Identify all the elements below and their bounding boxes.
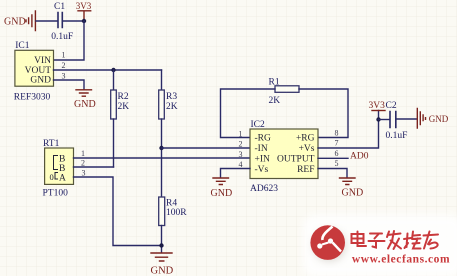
resistor R4	[159, 197, 165, 226]
svg-text:0: 0	[50, 172, 54, 182]
svg-text:0.1uF: 0.1uF	[51, 32, 73, 42]
svg-text:R3: R3	[166, 92, 177, 102]
wire C1 to junction	[63, 20, 85, 22]
wire C2 to ground right	[396, 118, 417, 120]
ground right of C2 (rotated bars)	[417, 109, 425, 129]
wire R2 bottom lead to RT1 pin2 wire	[113, 119, 115, 167]
svg-text:+Vs: +Vs	[299, 144, 315, 154]
svg-text:GND: GND	[342, 188, 364, 199]
svg-text:2K: 2K	[166, 102, 178, 112]
svg-text:REF: REF	[297, 165, 314, 175]
svg-text:GND: GND	[429, 114, 449, 124]
svg-text:1: 1	[239, 129, 243, 138]
node junction +Vs/C2	[376, 117, 380, 121]
node junction C1/3V3/VIN	[82, 19, 86, 23]
svg-text:IC2: IC2	[251, 120, 266, 130]
ground GND top-left (rotated bars)	[26, 11, 35, 31]
watermark logo disc	[310, 225, 346, 261]
svg-text:GND: GND	[74, 99, 96, 110]
svg-text:+RG: +RG	[296, 134, 315, 144]
wire RT1 pin2 to R2 column	[74, 166, 114, 168]
capacitor C2	[390, 112, 396, 128]
node junction VOUT/R2	[111, 68, 115, 72]
svg-text:7: 7	[335, 139, 339, 148]
capacitor C1	[58, 13, 62, 28]
ground under IC2 pin5	[340, 178, 356, 185]
node junction R3/R4/IC2 -IN	[159, 146, 163, 150]
op-amp IC1 REF3030 body	[15, 50, 54, 86]
svg-text:GND: GND	[151, 266, 174, 276]
wire junction to IC2 pin2	[162, 147, 251, 149]
svg-text:1: 1	[81, 149, 85, 158]
ground under IC2 pin4	[213, 178, 229, 185]
resistor R3	[159, 90, 165, 119]
svg-text:C2: C2	[386, 101, 397, 111]
svg-text:OUTPUT: OUTPUT	[277, 155, 315, 165]
wire IC2 pin5 REF to ground	[318, 169, 347, 178]
wire R4 bottom to ground	[161, 226, 163, 253]
svg-text:3V3: 3V3	[76, 1, 92, 11]
svg-text:8: 8	[335, 128, 339, 137]
watermark chinese text 电子发烧友	[353, 232, 440, 250]
svg-text:REF3030: REF3030	[14, 93, 51, 103]
ground under IC1	[76, 90, 92, 96]
wire IC1 VOUT to R3 column	[54, 69, 162, 71]
svg-text:R2: R2	[118, 92, 129, 102]
wire IC2 pin4 to ground	[221, 169, 251, 178]
svg-text:RT1: RT1	[43, 139, 60, 149]
wire feedback loop right: R1 to IC2 pin8	[299, 89, 348, 138]
svg-text:www.elecfans.com: www.elecfans.com	[352, 254, 450, 266]
svg-text:R1: R1	[269, 78, 280, 88]
RT1 internal bracket	[54, 156, 58, 170]
svg-text:-RG: -RG	[255, 134, 272, 144]
wire IC2 pin7 to 3V3	[318, 111, 379, 149]
svg-text:+IN: +IN	[255, 155, 271, 165]
power port 3V3 right	[372, 110, 385, 112]
wire RT1 pin1 to IC2 pin3	[74, 157, 251, 159]
svg-text:2K: 2K	[118, 102, 130, 112]
svg-text:C1: C1	[54, 2, 65, 12]
node junction RT1-A/R4/ground	[159, 243, 163, 247]
wire R3 top lead	[161, 70, 163, 90]
svg-text:-Vs: -Vs	[255, 165, 269, 175]
wire RT1 pin3 down and to R4 bottom	[74, 177, 162, 246]
op-amp IC2 AD623 body	[250, 129, 318, 179]
wire feedback loop left: IC2 pin1 up and to R1	[221, 89, 276, 138]
svg-text:3: 3	[82, 169, 86, 178]
wire R3 bottom lead down to R4	[161, 119, 163, 197]
svg-text:2K: 2K	[269, 96, 281, 106]
svg-text:PT100: PT100	[43, 189, 69, 199]
svg-text:5: 5	[335, 159, 339, 168]
resistor R2	[111, 90, 117, 119]
wire junction down to IC1 pin1	[54, 21, 85, 60]
svg-text:3: 3	[62, 71, 66, 80]
svg-text:4: 4	[239, 160, 243, 169]
svg-text:VOUT: VOUT	[25, 66, 52, 76]
svg-text:AD0: AD0	[350, 152, 369, 162]
svg-text:3V3: 3V3	[369, 101, 386, 111]
svg-text:GND: GND	[211, 188, 233, 199]
svg-text:0.1uF: 0.1uF	[386, 131, 408, 141]
transistor RT1 PT100 body	[45, 148, 74, 184]
svg-text:100R: 100R	[166, 208, 187, 218]
svg-text:B: B	[59, 164, 65, 174]
svg-text:-IN: -IN	[255, 144, 268, 154]
resistor R1	[275, 86, 299, 93]
svg-text:A: A	[59, 174, 66, 184]
wire junction to C2	[379, 119, 390, 121]
watermark plate	[303, 215, 457, 276]
svg-text:VIN: VIN	[34, 56, 51, 66]
wire R2 top lead	[113, 70, 115, 90]
svg-text:6: 6	[335, 149, 339, 158]
svg-text:GND: GND	[30, 75, 51, 85]
svg-text:R4: R4	[166, 199, 177, 209]
wire ground to C1	[36, 20, 58, 22]
svg-text:IC1: IC1	[15, 41, 30, 51]
svg-text:1: 1	[62, 51, 66, 60]
svg-text:GND: GND	[4, 17, 26, 28]
power port 3V3 left	[78, 11, 91, 21]
svg-text:AD623: AD623	[250, 184, 278, 194]
wire IC2 pin6 OUTPUT stub	[318, 157, 348, 159]
ground under R4	[151, 253, 172, 261]
svg-text:B: B	[59, 155, 65, 165]
svg-text:2: 2	[239, 140, 243, 149]
svg-text:2: 2	[62, 61, 66, 70]
svg-text:3: 3	[239, 150, 243, 159]
wire IC1 GND pin to ground	[54, 80, 85, 89]
